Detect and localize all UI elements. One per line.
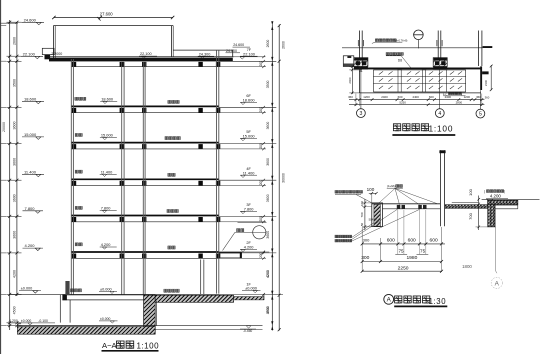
svg-text:24.600: 24.600 bbox=[24, 17, 37, 22]
svg-text:100: 100 bbox=[468, 188, 473, 195]
svg-text:4200: 4200 bbox=[266, 270, 270, 278]
svg-text:50450: 50450 bbox=[369, 217, 377, 221]
svg-text:18.600: 18.600 bbox=[243, 97, 256, 102]
svg-text:2400: 2400 bbox=[381, 95, 388, 99]
svg-text:3500: 3500 bbox=[12, 79, 16, 87]
svg-text:-0.450: -0.450 bbox=[243, 329, 253, 333]
svg-text:200: 200 bbox=[259, 180, 263, 186]
svg-text:2.2000: 2.2000 bbox=[51, 52, 62, 56]
svg-text:600: 600 bbox=[398, 95, 403, 99]
svg-text:700: 700 bbox=[360, 212, 364, 217]
svg-text:-0.100: -0.100 bbox=[38, 319, 48, 323]
svg-text:3600: 3600 bbox=[12, 122, 16, 130]
svg-text:): ) bbox=[504, 190, 505, 194]
svg-text:(4+9A): (4+9A) bbox=[387, 184, 396, 188]
svg-text:2300: 2300 bbox=[484, 79, 488, 86]
svg-text:18.600: 18.600 bbox=[24, 96, 37, 101]
svg-text:15.000: 15.000 bbox=[243, 134, 256, 139]
svg-text:700: 700 bbox=[468, 212, 473, 219]
svg-text:5: 5 bbox=[479, 112, 482, 118]
svg-text:4.200: 4.200 bbox=[244, 245, 255, 250]
svg-text:2400: 2400 bbox=[348, 77, 352, 84]
svg-text:100: 100 bbox=[367, 187, 375, 192]
svg-text:1:100: 1:100 bbox=[137, 342, 160, 351]
svg-text:1200: 1200 bbox=[363, 95, 370, 99]
svg-text:3600: 3600 bbox=[266, 231, 270, 239]
svg-text:A: A bbox=[495, 281, 500, 288]
svg-text:15.000: 15.000 bbox=[101, 133, 114, 138]
svg-text:4200: 4200 bbox=[12, 270, 16, 278]
svg-text:1980: 1980 bbox=[406, 255, 417, 261]
svg-text:7.800: 7.800 bbox=[101, 206, 112, 211]
svg-text:75: 75 bbox=[420, 248, 426, 253]
svg-text:22.100: 22.100 bbox=[23, 51, 36, 56]
svg-text:3: 3 bbox=[359, 111, 362, 117]
svg-text:A−A: A−A bbox=[102, 341, 117, 350]
svg-text:50: 50 bbox=[360, 223, 364, 227]
svg-text:24.600: 24.600 bbox=[226, 49, 237, 53]
svg-text:2250: 2250 bbox=[398, 265, 409, 271]
svg-text:2600: 2600 bbox=[282, 41, 286, 49]
svg-text:4.200: 4.200 bbox=[25, 243, 36, 248]
svg-text:27.600: 27.600 bbox=[100, 11, 113, 16]
svg-text:11.400: 11.400 bbox=[101, 169, 113, 174]
svg-text:±0.000: ±0.000 bbox=[21, 319, 31, 323]
svg-text:1:100: 1:100 bbox=[429, 124, 454, 134]
svg-text:300: 300 bbox=[361, 255, 369, 261]
svg-text:2400: 2400 bbox=[445, 95, 452, 99]
svg-text:100: 100 bbox=[360, 201, 364, 206]
svg-text:15.000: 15.000 bbox=[24, 132, 37, 137]
svg-text:4.200: 4.200 bbox=[490, 194, 502, 199]
svg-text:200: 200 bbox=[259, 216, 263, 222]
svg-text:360: 360 bbox=[348, 95, 353, 99]
svg-text:3600: 3600 bbox=[12, 194, 16, 202]
svg-text:): ) bbox=[461, 92, 462, 96]
svg-text:200: 200 bbox=[259, 107, 263, 113]
svg-text:24.300: 24.300 bbox=[199, 52, 211, 56]
svg-text:3600: 3600 bbox=[266, 122, 270, 130]
svg-text:3600: 3600 bbox=[12, 158, 16, 166]
svg-text:600: 600 bbox=[408, 238, 416, 244]
svg-text:300: 300 bbox=[363, 238, 370, 243]
svg-text:1:30: 1:30 bbox=[429, 297, 447, 306]
svg-text:4: 4 bbox=[438, 111, 441, 117]
svg-text:22.100: 22.100 bbox=[243, 51, 256, 56]
svg-text:360: 360 bbox=[485, 95, 490, 99]
svg-text:22.100: 22.100 bbox=[140, 52, 152, 56]
svg-text:24.600: 24.600 bbox=[233, 43, 244, 47]
svg-text:200: 200 bbox=[259, 143, 263, 149]
svg-text:200: 200 bbox=[259, 61, 263, 67]
svg-text:4500: 4500 bbox=[12, 306, 16, 314]
svg-text:±0.000: ±0.000 bbox=[100, 317, 110, 321]
svg-text:3600: 3600 bbox=[266, 194, 270, 202]
svg-text:4.200: 4.200 bbox=[101, 242, 112, 247]
svg-text:1800: 1800 bbox=[462, 264, 472, 269]
svg-text:1200: 1200 bbox=[464, 95, 471, 99]
svg-text:2600: 2600 bbox=[266, 40, 270, 48]
svg-text:2800: 2800 bbox=[456, 101, 463, 105]
svg-text:7.800: 7.800 bbox=[25, 206, 36, 211]
svg-text:75: 75 bbox=[398, 248, 404, 253]
svg-text:600: 600 bbox=[429, 95, 434, 99]
svg-text:600: 600 bbox=[430, 238, 438, 244]
svg-text:2400: 2400 bbox=[412, 95, 419, 99]
svg-text:D8: D8 bbox=[398, 59, 402, 63]
svg-text:20000: 20000 bbox=[2, 122, 6, 132]
svg-text:18.600: 18.600 bbox=[101, 97, 114, 102]
svg-text:±0.000: ±0.000 bbox=[100, 287, 112, 291]
svg-text:-0.200: -0.200 bbox=[8, 319, 18, 323]
svg-text:7.800: 7.800 bbox=[244, 207, 255, 212]
svg-text:±0.000: ±0.000 bbox=[245, 286, 258, 291]
svg-text:(8+0.76+8): (8+0.76+8) bbox=[395, 39, 408, 43]
svg-text:3500: 3500 bbox=[266, 80, 270, 88]
svg-text:3600: 3600 bbox=[12, 231, 16, 239]
svg-text:11.400: 11.400 bbox=[243, 170, 255, 175]
svg-text:600: 600 bbox=[387, 238, 395, 244]
svg-text:5250: 5250 bbox=[399, 101, 406, 105]
svg-text:3600: 3600 bbox=[266, 158, 270, 166]
svg-text:3900: 3900 bbox=[266, 306, 270, 314]
svg-text:30000: 30000 bbox=[282, 173, 286, 183]
svg-text:2600: 2600 bbox=[12, 37, 16, 45]
svg-text:±0.000: ±0.000 bbox=[21, 287, 33, 291]
svg-text:11.400: 11.400 bbox=[24, 169, 37, 174]
